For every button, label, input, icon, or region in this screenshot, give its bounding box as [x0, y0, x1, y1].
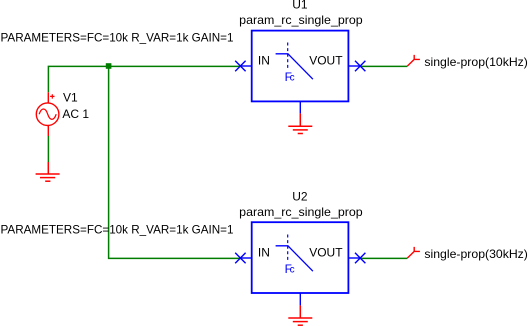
- svg-text:IN: IN: [258, 246, 270, 260]
- svg-text:V1: V1: [63, 91, 78, 105]
- svg-text:U1: U1: [292, 0, 308, 11]
- svg-text:U2: U2: [292, 190, 308, 204]
- svg-text:c: c: [290, 265, 295, 276]
- svg-text:c: c: [290, 73, 295, 84]
- svg-text:single-prop(10kHz): single-prop(10kHz): [424, 55, 528, 69]
- svg-text:PARAMETERS=FC=10k R_VAR=1k GAI: PARAMETERS=FC=10k R_VAR=1k GAIN=1: [1, 30, 234, 44]
- svg-text:AC 1: AC 1: [62, 107, 89, 121]
- svg-text:IN: IN: [258, 54, 270, 68]
- svg-text:param_rc_single_prop: param_rc_single_prop: [239, 205, 363, 219]
- svg-text:PARAMETERS=FC=10k R_VAR=1k GAI: PARAMETERS=FC=10k R_VAR=1k GAIN=1: [1, 222, 234, 236]
- svg-text:VOUT: VOUT: [309, 246, 343, 260]
- svg-text:param_rc_single_prop: param_rc_single_prop: [239, 13, 363, 27]
- svg-text:single-prop(30kHz): single-prop(30kHz): [424, 247, 528, 261]
- svg-text:VOUT: VOUT: [309, 54, 343, 68]
